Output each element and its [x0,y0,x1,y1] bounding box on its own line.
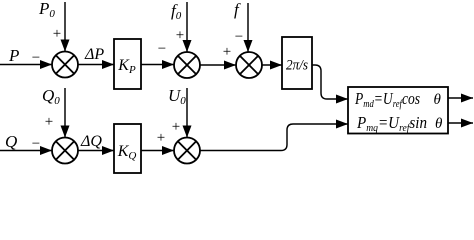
wire KQ to S5 [141,150,174,152]
wire S1 to KP [78,64,114,66]
wire S4 to KQ [78,150,114,152]
wire P input [0,64,52,66]
svg-text:θ: θ [434,92,442,108]
summing junction S1 [52,52,78,78]
svg-text:+: + [176,28,184,44]
svg-text:ΔQ: ΔQ [80,133,102,150]
summing junction S4 [52,138,78,164]
block KQ [114,124,141,173]
wire output q [448,122,473,124]
svg-text:2π/s: 2π/s [286,58,308,74]
wire S3 to integrator [262,64,282,66]
svg-text:θ: θ [435,116,443,132]
svg-text:f0: f0 [171,1,182,22]
svg-text:U0: U0 [168,86,186,107]
wire f drop [247,3,249,52]
svg-text:+: + [53,26,61,42]
wire output d [448,97,473,99]
svg-text:Q: Q [5,132,17,151]
svg-text:P0: P0 [38,0,55,20]
wire Q input [0,150,52,152]
block 2pi/s [282,37,312,89]
svg-text:Pmq=Urefsin: Pmq=Urefsin [356,113,427,134]
summing junction S2 [174,52,200,78]
svg-text:+: + [172,119,180,135]
svg-text:f: f [234,0,241,19]
svg-text:KQ: KQ [117,143,137,162]
svg-text:KP: KP [117,57,136,76]
svg-text:+: + [223,44,231,60]
svg-text:−: − [32,136,40,152]
wire KP to S2 [141,64,174,66]
wire S5 to Pmq [200,124,348,151]
svg-text:−: − [158,41,166,57]
wire f0 drop [186,2,188,52]
wire P0 drop [64,2,66,52]
svg-text:Pmd=Urefcos: Pmd=Urefcos [354,89,420,110]
block KP [114,39,141,89]
summing junction S3 [236,52,262,78]
svg-text:P: P [8,46,19,65]
wire U0 drop [186,88,188,138]
summing junction S5 [174,138,200,164]
svg-text:Q0: Q0 [42,86,60,107]
svg-text:+: + [45,114,53,130]
block equations [348,87,448,134]
wire Q0 drop [64,88,66,138]
wire S2 to S3 [200,64,236,66]
svg-text:−: − [32,50,40,66]
svg-text:−: − [235,29,243,45]
wire integrator to Pmd [312,65,348,99]
svg-text:ΔP: ΔP [84,46,104,63]
svg-text:+: + [157,130,165,146]
